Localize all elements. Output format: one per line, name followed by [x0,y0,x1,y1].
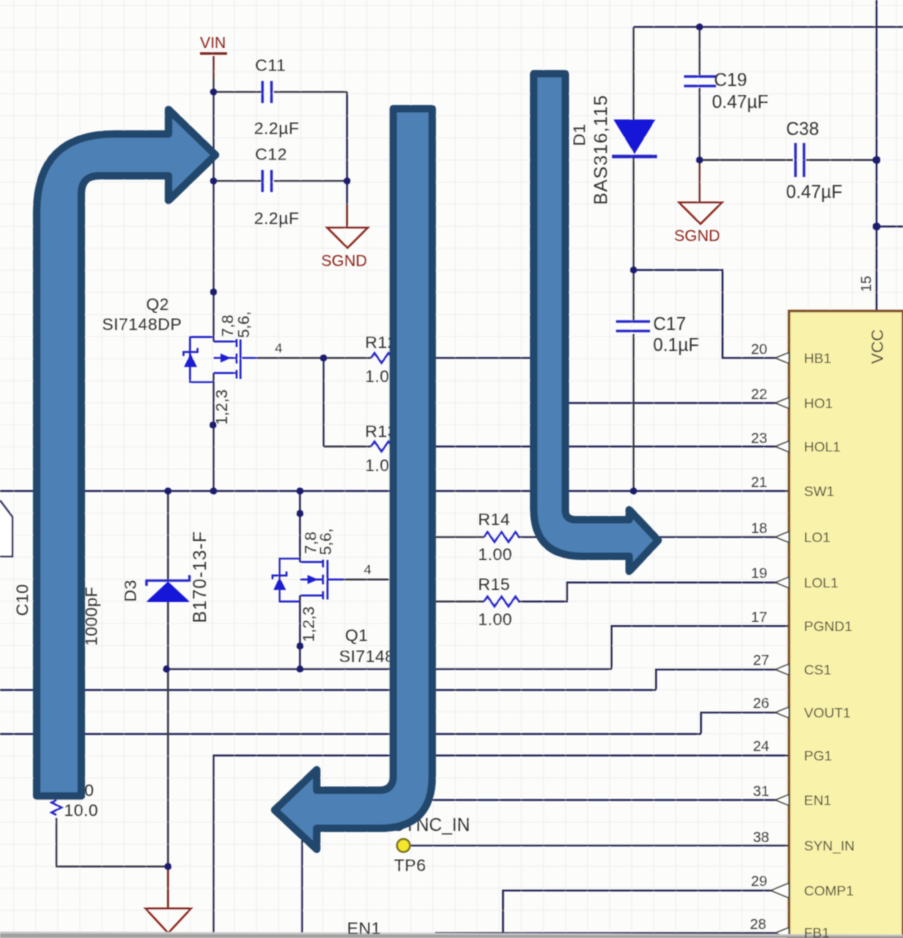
wire R10 bottom lead [57,818,169,867]
capacitor C12 [263,170,272,192]
svg-text:R14: R14 [478,510,510,529]
resistor R12 [371,353,404,363]
wire Q1 gate lead [330,579,389,581]
svg-text:VOUT1: VOUT1 [804,705,851,721]
wire SW1 bus [0,490,789,492]
svg-text:26: 26 [753,696,769,712]
wire C19 top lead [699,27,701,75]
svg-text:R15: R15 [478,575,510,594]
blue arrow middle (down then left) [275,109,433,850]
bottom photo edge band [0,932,903,938]
diode D1 BAS316,115 [612,120,657,157]
svg-text:SGND: SGND [321,253,367,270]
svg-text:C10: C10 [13,584,32,616]
transistor Q2 [184,337,258,382]
test point TP6 [397,839,410,852]
svg-text:17: 17 [751,610,767,626]
capacitor C17 [616,322,650,332]
svg-text:C19: C19 [714,70,747,90]
transistor Q1 [273,559,345,602]
wire C11 left lead [214,91,262,93]
wire R13 lead left [324,446,372,448]
svg-text:BAS316,115: BAS316,115 [590,94,611,205]
resistor R14 [484,532,519,542]
svg-text:SGND: SGND [674,228,720,245]
capacitor C19 [684,77,716,87]
wire VOUT1 long line [0,733,701,735]
wire C11 right lead [274,91,347,93]
svg-text:4: 4 [364,562,371,577]
wire C11/C12 right vertical [346,92,348,181]
capacitor C11 [263,81,272,103]
svg-text:0.1µF: 0.1µF [653,335,699,355]
wire C38 right lead to VCC rail [806,159,877,161]
svg-text:HB1: HB1 [804,350,831,366]
wire D3 anode down to SGND junction [167,602,169,867]
svg-text:SW1: SW1 [804,483,835,499]
svg-text:24: 24 [753,739,769,755]
wire PGND1 jog to pin 17 [612,626,790,669]
svg-text:21: 21 [751,475,767,491]
ground SGND top-right [679,203,722,225]
ground SGND bottom [146,909,192,934]
svg-text:2.2µF: 2.2µF [254,209,299,228]
svg-text:C11: C11 [255,56,286,75]
svg-text:TP6: TP6 [394,856,426,875]
wire gate node down to R13 [323,358,325,447]
wire C12 right lead [274,180,347,182]
svg-text:HO1: HO1 [804,395,833,411]
power port VIN bar [200,52,227,55]
wire C17 vertical top [633,270,635,320]
svg-text:1,2,3: 1,2,3 [301,606,318,642]
svg-text:HOL1: HOL1 [804,439,841,455]
wire Q1 drain vertical [299,491,301,562]
capacitor C38 [796,143,805,177]
wire EN1 to pin 31 [302,800,789,938]
svg-text:SI7148DP: SI7148DP [102,315,182,334]
svg-text:Q1: Q1 [345,626,368,645]
svg-text:C12: C12 [255,145,287,164]
diode D3 B170-13-F schottky [146,575,190,602]
svg-text:C17: C17 [653,314,686,334]
svg-text:Q2: Q2 [146,295,169,314]
svg-text:1.00: 1.00 [478,545,512,564]
blue arrow right (down then right) [534,74,659,572]
arrows drawn last [37,74,659,850]
resistor R15 [484,597,519,607]
wire R12 lead left [324,357,372,359]
svg-text:D1: D1 [570,124,589,146]
wire HO1 to pin 22 [548,402,789,404]
wire R15 lead left [436,601,484,603]
svg-text:EN1: EN1 [804,792,831,808]
svg-text:23: 23 [751,431,767,447]
wire D3 branch top [167,491,169,581]
svg-text:VCC: VCC [869,329,887,364]
wire CS1 jog to pin 27 [656,670,789,691]
wire R13 output HOL1 to pin 23 [404,446,789,448]
wire R14 LO1 line to pin 18 [436,536,484,538]
svg-text:LO1: LO1 [804,529,831,545]
wire COMP1 to pin 29 [503,891,789,938]
svg-text:5,6,: 5,6, [318,528,335,555]
svg-text:VIN: VIN [200,35,226,52]
svg-text:C38: C38 [786,119,819,139]
svg-text:B170-13-F: B170-13-F [190,531,210,623]
svg-text:18: 18 [751,521,767,537]
svg-text:15: 15 [859,276,875,292]
wire SYN_IN from TP6 to pin 38 [410,845,789,847]
svg-text:PGND1: PGND1 [804,618,852,634]
wire Q2 source vertical [213,373,215,491]
wire C17 vertical bottom to SW1 [633,334,635,491]
svg-text:FB1: FB1 [804,925,830,938]
wire to SGND top-right [699,160,701,202]
wire CS1 long line [0,689,656,691]
wire C19 bottom lead [699,88,701,160]
IC block U? LM5143 [789,311,903,938]
svg-text:38: 38 [753,830,769,846]
wire Q1 source / PGND1 rail [167,668,612,670]
blue arrow left (up then right) [37,110,216,797]
svg-text:PG1: PG1 [804,748,832,764]
svg-text:31: 31 [753,784,769,800]
svg-text:LOL1: LOL1 [804,575,838,591]
wire VCC rail vertical pin 15 [876,0,878,311]
off-page connector flag left edge [0,501,13,557]
svg-text:20: 20 [751,342,767,358]
svg-text:0.47µF: 0.47µF [786,182,842,202]
svg-text:29: 29 [751,874,767,890]
wire VCC branch right [877,226,903,228]
wire VIN vertical stub [213,56,215,80]
pin direction markers [771,353,789,938]
svg-text:1.00: 1.00 [478,610,512,629]
wire FB1 to pin 28 [435,932,789,934]
svg-text:EN1: EN1 [347,919,381,938]
wire C38 left lead [700,159,794,161]
resistor R13 [371,442,404,452]
resistor R10 (partially hidden) [52,800,62,815]
wire C12 left lead [214,180,262,182]
wire Q2 gate to junction [242,357,324,359]
wire top rail to right edge [634,26,903,28]
svg-text:1,2,3: 1,2,3 [214,389,231,425]
wire D1 branch vertical [633,27,635,120]
svg-text:D3: D3 [121,580,140,602]
wire VIN rail down through C11/C12 to Q2 drain [213,92,215,342]
wire to SGND top-left [346,181,348,206]
svg-text:22: 22 [751,387,767,403]
svg-text:10.0: 10.0 [64,801,98,820]
wire R12 output to hidden jog under blue bars [404,357,548,359]
wire PG1 to pin 24 [214,756,790,938]
svg-text:COMP1: COMP1 [804,883,854,899]
svg-text:SYN_IN: SYN_IN [804,838,855,854]
wire hidden jog down to HO1 level [547,358,549,403]
svg-text:7,8: 7,8 [220,315,237,337]
svg-text:2.2µF: 2.2µF [254,119,299,138]
svg-text:5,6,: 5,6, [236,311,253,338]
wire R15 output jog up [518,583,789,602]
wire to SGND bottom [167,867,169,909]
svg-text:28: 28 [750,917,766,933]
wire Q1 source vertical [299,596,301,670]
svg-text:19: 19 [751,566,767,582]
svg-text:27: 27 [753,653,769,669]
ground SGND top-left [327,228,368,249]
wire HB1 branch [634,270,790,358]
wire VOUT1 jog to pin 26 [701,713,789,735]
svg-text:0.47µF: 0.47µF [712,92,768,112]
svg-text:4: 4 [275,341,282,356]
svg-text:CS1: CS1 [804,662,831,678]
